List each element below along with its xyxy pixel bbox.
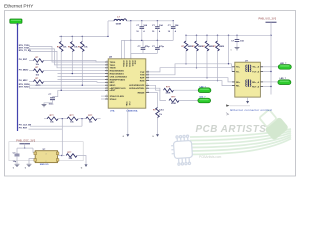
svg-text:2: 2 xyxy=(46,161,47,163)
wire LED1 to port xyxy=(174,89,199,91)
pin MDC U1 xyxy=(105,81,108,83)
svg-text:100n: 100n xyxy=(49,104,54,106)
resistor R10 49R9 xyxy=(185,35,187,41)
svg-text:PCBArtists.com: PCBArtists.com xyxy=(199,155,222,159)
pin LED2/nINTSEL U1 xyxy=(146,87,149,89)
wire row2 caps bottom xyxy=(131,53,158,58)
svg-text:600R: 600R xyxy=(116,24,122,26)
svg-text:XTAL: XTAL xyxy=(125,102,128,108)
pin nRST U1 xyxy=(105,89,108,91)
resistor R?? strap2 xyxy=(67,117,78,121)
pin RD- U2 xyxy=(232,85,235,87)
wire RBIAS to ground xyxy=(157,118,159,136)
svg-text:23: 23 xyxy=(147,76,149,78)
wire PH_MDC left xyxy=(29,81,34,83)
svg-text:RXD0/MODE0: RXD0/MODE0 xyxy=(110,71,125,73)
pin TD+ U2 xyxy=(232,66,235,68)
svg-text:Ethernet PHY: Ethernet PHY xyxy=(4,4,34,10)
junction rail at U1 vertical xyxy=(130,20,131,21)
svg-text:TXEN: TXEN xyxy=(110,68,116,70)
capacitor C12 xyxy=(172,21,174,27)
wire TXP net xyxy=(149,68,235,72)
wire PH_MDC to U1 xyxy=(45,81,106,84)
junction osc power xyxy=(24,147,25,148)
wire C bypass to ground xyxy=(44,103,53,104)
watermark paintbrush head xyxy=(256,107,289,141)
resistor R11 49R9 xyxy=(196,35,198,41)
pin RXP U1 xyxy=(146,77,149,79)
wire nINT to C bypass xyxy=(53,90,58,96)
svg-text:13: 13 xyxy=(106,84,108,86)
transformer U2 body xyxy=(235,62,261,97)
wire osc out xyxy=(58,155,62,157)
wire ETH_RXD0 xyxy=(29,84,105,86)
junction pull-up 1 xyxy=(61,36,62,37)
power flag 3V3 xyxy=(10,19,22,23)
svg-text:11: 11 xyxy=(106,75,108,77)
svg-text:12: 12 xyxy=(106,81,108,83)
svg-text:RCT_A: RCT_A xyxy=(252,85,259,88)
resistor R13 49R9 xyxy=(217,35,219,41)
svg-text:RXN: RXN xyxy=(140,81,145,83)
wire PH_CLK xyxy=(30,125,82,127)
wire strap row left xyxy=(44,118,48,120)
wire PH_MDC right xyxy=(44,81,45,83)
junction cap row xyxy=(130,40,131,41)
pin TD- U2 xyxy=(232,71,235,73)
ground clk arrow xyxy=(85,164,88,167)
section outline box oscillator xyxy=(9,142,83,161)
op IC U1 LAN8720A body xyxy=(108,59,146,108)
svg-text:TXN: TXN xyxy=(140,75,145,77)
svg-text:TD-: TD- xyxy=(236,71,240,73)
wire R10 down xyxy=(185,51,187,64)
capacitor C osc xyxy=(16,148,18,154)
wire ETH_RXD1 xyxy=(29,87,105,89)
wire RXN net xyxy=(149,81,235,86)
wire strap drop 1 xyxy=(61,119,63,129)
ground for C bypass xyxy=(42,104,47,106)
svg-text:MDIO: MDIO xyxy=(110,85,116,87)
wire power rail vertical xyxy=(270,22,272,94)
pin TXN U1 xyxy=(146,74,149,76)
svg-text:14: 14 xyxy=(106,87,108,89)
capacitor C11 xyxy=(156,21,158,27)
wire decoupling rail xyxy=(186,34,271,36)
junction ferrite left xyxy=(107,36,108,37)
pin RXD1/MODE1 U1 xyxy=(105,73,108,75)
wire U1 top pin vertical xyxy=(130,21,132,59)
junction cap C10 top xyxy=(141,20,142,21)
wire RBIAS xyxy=(149,93,158,108)
wire ETH_TXD1 xyxy=(29,49,105,65)
svg-text:XTAL2: XTAL2 xyxy=(110,98,118,101)
pin MDIO U1 xyxy=(105,84,108,86)
svg-text:16: 16 xyxy=(106,66,108,68)
pin TD+_A U2 right xyxy=(260,66,263,68)
junction osc out xyxy=(61,155,62,156)
wire U1 top pin vertical 2 xyxy=(120,40,122,58)
svg-text:TCT_A: TCT_A xyxy=(252,70,259,73)
svg-text:RD+_A: RD+_A xyxy=(252,81,259,84)
svg-text:PHB_VIO_3V3: PHB_VIO_3V3 xyxy=(259,17,277,20)
svg-text:ETH_RXD1: ETH_RXD1 xyxy=(19,87,31,89)
svg-text:LED2/nINTSEL: LED2/nINTSEL xyxy=(129,88,145,90)
wire center tap drop xyxy=(228,35,230,64)
junction cap C11 top xyxy=(157,20,158,21)
wire clk right xyxy=(77,156,86,166)
svg-text:1%: 1% xyxy=(159,114,162,116)
power bar PHB_OSC_3V3 xyxy=(20,143,31,145)
wire PH_RST right xyxy=(44,60,45,62)
wire nINT row xyxy=(58,89,105,91)
wire bundle CRS_DV xyxy=(58,76,106,78)
pin RXN U1 xyxy=(146,80,149,82)
wire R13 down xyxy=(217,51,219,81)
resistor R? PH_MDC xyxy=(34,80,44,84)
wire U1 GND down xyxy=(127,108,129,135)
wire TXN net xyxy=(149,64,235,75)
wire R11 down xyxy=(196,51,198,68)
resistor R?? strap1 xyxy=(47,117,58,121)
sheet border frame xyxy=(5,11,296,177)
pin RXD0/MODE0 U1 xyxy=(105,70,108,72)
resistor R4 pull-up xyxy=(60,36,62,41)
wire LED2 to port xyxy=(179,100,198,102)
resistor R clk 33R xyxy=(66,154,77,158)
wire vertical power bus xyxy=(17,23,19,131)
wire PH_RST to U1 xyxy=(45,61,106,63)
svg-text:RXER/PHYAD0: RXER/PHYAD0 xyxy=(110,78,126,81)
svg-text:MDC: MDC xyxy=(110,82,115,84)
wire strap segs xyxy=(58,118,67,120)
resistor R22 RBIAS 12k1 xyxy=(156,108,160,118)
junction termination R11 xyxy=(196,35,197,36)
svg-text:4: 4 xyxy=(46,153,47,155)
watermark brush stroke swoosh lines xyxy=(190,129,291,137)
svg-text:VDDCR: VDDCR xyxy=(128,60,130,67)
svg-text:20: 20 xyxy=(147,73,149,75)
svg-text:LED1/REGOFF: LED1/REGOFF xyxy=(129,85,145,87)
wire strap drop 2 xyxy=(81,119,83,127)
svg-text:TD+_A: TD+_A xyxy=(252,66,259,69)
svg-text:22: 22 xyxy=(147,79,149,81)
junction cap bottoms xyxy=(141,40,142,41)
svg-text:1: 1 xyxy=(231,50,232,52)
pin nINT/REFCLKO U1 xyxy=(105,87,108,89)
wire osc power xyxy=(24,144,26,148)
ground C osc xyxy=(15,164,20,166)
wire pull-up 2 down xyxy=(71,52,73,74)
svg-text:470p: 470p xyxy=(145,45,151,48)
svg-text:TXD1: TXD1 xyxy=(110,65,116,67)
ground osc xyxy=(27,164,32,166)
pin TCT_A U2 right xyxy=(260,71,263,73)
wire osc out 2 xyxy=(62,155,65,157)
ground U1 arrow xyxy=(126,134,129,137)
power bar PHB_VIO_3V3 xyxy=(266,21,277,23)
capacitor C decoupling xyxy=(236,35,238,39)
resistor R5 pull-up xyxy=(71,36,73,41)
wire U1 top pin vertical 3 xyxy=(123,40,125,58)
svg-text:RBIAS: RBIAS xyxy=(138,92,145,95)
wire from bus top area vertical xyxy=(107,21,109,36)
wire osc vdd drop xyxy=(33,148,35,152)
junction termination R12 xyxy=(206,35,207,36)
svg-text:VDD2A: VDD2A xyxy=(125,60,128,67)
svg-text:VDD1A: VDD1A xyxy=(122,60,125,67)
svg-text:PH_CLK_EN: PH_CLK_EN xyxy=(19,124,32,126)
svg-text:nRST: nRST xyxy=(110,90,116,92)
pin RD+_A U2 right xyxy=(260,81,263,83)
svg-text:VDD: VDD xyxy=(134,60,136,65)
svg-text:17: 17 xyxy=(106,60,108,62)
pin CRS_DV/MODE2 U1 xyxy=(105,76,108,78)
ground RBIAS arrow xyxy=(156,134,159,137)
wire LED1 from U1 xyxy=(149,85,161,90)
svg-text:15: 15 xyxy=(106,89,108,91)
wire PH_RST2 xyxy=(29,128,63,130)
svg-text:RXD1/MODE1: RXD1/MODE1 xyxy=(110,74,125,76)
pin RXER/PHYAD0 U1 xyxy=(105,78,108,80)
wire TCT to rail xyxy=(263,71,271,73)
wire PH_MDIO to U1 xyxy=(45,70,106,72)
capacitor C14 xyxy=(142,40,144,47)
oscillator X1 body xyxy=(35,151,57,163)
svg-text:TXD0: TXD0 xyxy=(110,62,116,64)
resistor R?? strap3 xyxy=(86,117,97,121)
svg-text:21: 21 xyxy=(147,70,149,72)
junction center tap drop xyxy=(228,35,229,36)
pin TXEN U1 xyxy=(105,67,108,69)
pin RCT_A U2 right xyxy=(260,86,263,88)
capacitor C15 xyxy=(156,40,158,47)
pin TXD0 U1 xyxy=(105,61,108,63)
pin TXD1 U1 xyxy=(105,64,108,66)
junction decoupling cap xyxy=(236,35,237,36)
junction pull-up 3 xyxy=(82,36,83,37)
wire RD+ to port xyxy=(263,81,278,83)
junction under power flag xyxy=(17,24,19,26)
note arrow marker xyxy=(226,104,230,106)
wire pull-up 3 down xyxy=(81,52,83,86)
svg-text:LAN8720A: LAN8720A xyxy=(127,110,138,113)
pin TXP U1 xyxy=(146,71,149,73)
junction pull-up 2 xyxy=(72,36,73,37)
svg-text:XTAL1/CLKIN: XTAL1/CLKIN xyxy=(110,95,124,98)
wire LED2 from U1 xyxy=(149,88,166,100)
wire bundle RXD2 xyxy=(58,73,106,75)
watermark chip logo xyxy=(170,135,193,166)
wire RXP net xyxy=(149,78,235,82)
wire XTAL2 stub xyxy=(101,98,105,100)
ground decoupling cap xyxy=(235,48,240,50)
wire pull-up 1 down xyxy=(60,52,62,91)
junction termination R10 xyxy=(185,35,186,36)
wire cap row bottom rail xyxy=(121,39,173,41)
pin shield U2 bottom xyxy=(247,97,249,102)
wire PH_MDIO left xyxy=(29,70,34,72)
svg-text:330R: 330R xyxy=(166,93,171,95)
svg-text:PCB ARTISTS: PCB ARTISTS xyxy=(196,124,267,135)
svg-text:18: 18 xyxy=(106,63,108,65)
wire osc gnd xyxy=(29,159,35,164)
svg-text:330R: 330R xyxy=(171,103,176,105)
wire RCT to rail xyxy=(263,86,271,88)
pin XTAL2 U1 xyxy=(105,98,108,100)
ferrite bead L1 xyxy=(108,20,114,22)
pin XTAL1/CLKIN U1 xyxy=(105,95,108,97)
junction cap C12 top xyxy=(173,20,174,21)
wire R12 down xyxy=(206,51,208,78)
svg-text:10: 10 xyxy=(106,78,108,80)
wire osc out up xyxy=(61,129,63,155)
resistor R6 pull-up xyxy=(81,36,83,41)
svg-text:49R9: 49R9 xyxy=(36,84,42,87)
transformer U2 RX winding xyxy=(246,79,251,86)
svg-text:24: 24 xyxy=(147,91,149,93)
wire osc power rail xyxy=(17,147,33,149)
wire bundle RXER xyxy=(58,78,106,80)
wire ferrite right xyxy=(127,20,132,22)
wire ETH_TXD0 xyxy=(29,46,105,62)
svg-text:TXP: TXP xyxy=(140,72,145,74)
svg-text:VDDIO: VDDIO xyxy=(131,60,133,67)
svg-text:470p: 470p xyxy=(159,45,165,48)
svg-text:ETH_RXD0: ETH_RXD0 xyxy=(19,84,31,86)
junction strap 1 xyxy=(62,118,63,119)
transformer U2 TX winding xyxy=(246,65,251,72)
wire analog 3V3 rail xyxy=(127,20,174,22)
svg-text:U?A: U?A xyxy=(110,110,115,113)
resistor R12 49R9 xyxy=(206,35,208,41)
wire TD+ to port xyxy=(263,66,278,68)
wire PH_MDIO right xyxy=(44,70,45,72)
svg-text:RD-: RD- xyxy=(236,86,240,88)
svg-text:Ethernet connector omitted: Ethernet connector omitted xyxy=(230,108,272,112)
svg-text:PHB_OSC_3V3: PHB_OSC_3V3 xyxy=(16,139,35,142)
svg-text:PH_MDC: PH_MDC xyxy=(19,80,28,82)
svg-text:33R: 33R xyxy=(69,158,73,160)
pin RBIAS U1 xyxy=(146,92,149,94)
wire pull-up rail xyxy=(59,35,108,37)
resistor R? PH_MDIO xyxy=(34,69,44,73)
svg-text:CRS_DV/MODE2: CRS_DV/MODE2 xyxy=(110,76,128,78)
junction strap 2 xyxy=(81,118,82,119)
svg-text:PH_RST: PH_RST xyxy=(19,59,28,61)
wire XTAL1 stub xyxy=(101,95,105,97)
svg-text:PH_MDIO: PH_MDIO xyxy=(19,69,29,71)
wire PH_RST left xyxy=(29,60,34,62)
svg-text:SMD XO: SMD XO xyxy=(40,164,49,166)
svg-text:RXP: RXP xyxy=(140,78,145,80)
wire ETH_TX_EN xyxy=(29,51,105,67)
junction termination R13 xyxy=(217,35,218,36)
svg-text:PH_RST: PH_RST xyxy=(19,127,28,129)
pin LED1/REGOFF U1 xyxy=(146,84,149,86)
note tail mark xyxy=(226,113,229,116)
svg-text:CLK: CLK xyxy=(128,102,130,107)
pin RD+ U2 xyxy=(232,81,235,83)
junction rail xyxy=(270,35,271,36)
resistor R? PH_RST xyxy=(34,59,44,63)
capacitor C10 xyxy=(141,21,143,27)
